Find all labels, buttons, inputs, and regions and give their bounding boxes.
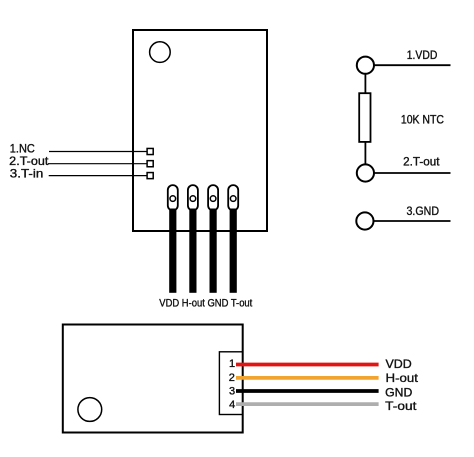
mounting hole xyxy=(150,42,171,63)
wire resistor to pad2 xyxy=(364,142,366,165)
svg-text:3.GND: 3.GND xyxy=(407,206,440,218)
node 3.GND pad xyxy=(356,212,373,229)
svg-text:VDD H-out GND T-out: VDD H-out GND T-out xyxy=(159,298,252,310)
connector box J1 xyxy=(219,352,242,415)
svg-text:2: 2 xyxy=(229,372,235,384)
svg-text:2.T-out: 2.T-out xyxy=(403,157,440,169)
mounting hole bottom view xyxy=(78,398,102,422)
pin 3 (GND) xyxy=(208,185,218,293)
svg-text:1: 1 xyxy=(229,358,235,370)
node 1.VDD pad xyxy=(357,57,374,74)
svg-text:T-out: T-out xyxy=(385,399,417,413)
module body bottom view xyxy=(63,325,243,433)
wire leader to pad 1.NC xyxy=(49,151,147,153)
wire from 1.VDD pad xyxy=(374,64,451,66)
wire from 3.GND pad xyxy=(374,220,451,222)
wire leader to pad 3.T-in xyxy=(49,175,147,177)
module body top view (U1) xyxy=(133,30,267,231)
pad 1 (NC) xyxy=(147,148,153,154)
node 2.T-out pad xyxy=(357,164,374,181)
svg-text:3: 3 xyxy=(229,385,235,397)
svg-text:H-out: H-out xyxy=(386,371,419,385)
module body bottom view outline xyxy=(63,325,243,433)
resistor 10K NTC xyxy=(359,93,370,142)
pin 4 (T-out) xyxy=(228,185,238,293)
wire T-out (gray) xyxy=(236,402,379,406)
svg-text:3.T-in: 3.T-in xyxy=(10,167,44,181)
svg-text:4: 4 xyxy=(229,399,235,411)
wire VDD (red) xyxy=(236,363,379,367)
wire GND (black) xyxy=(236,389,379,393)
wire H-out (orange) xyxy=(236,376,379,380)
svg-text:GND: GND xyxy=(385,385,412,399)
wire pad1 to resistor xyxy=(364,74,366,93)
wire leader to pad 2.T-out xyxy=(48,163,147,165)
svg-text:10K NTC: 10K NTC xyxy=(401,114,444,126)
pin 2 (H-out) xyxy=(188,185,198,293)
pad 2 (T-out) xyxy=(147,161,153,167)
pad 3 (T-in) xyxy=(147,173,153,179)
pin 1 (VDD) xyxy=(168,185,178,293)
svg-text:VDD: VDD xyxy=(386,357,413,371)
svg-text:1.VDD: 1.VDD xyxy=(407,50,438,62)
wire from 2.T-out pad xyxy=(374,172,451,174)
